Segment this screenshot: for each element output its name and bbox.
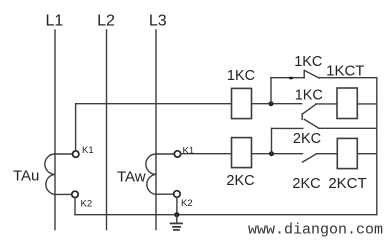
svg-text:2KC: 2KC [226, 173, 254, 189]
svg-text:K1: K1 [82, 145, 94, 156]
svg-text:2KC: 2KC [293, 131, 321, 147]
terminal K1 of TAw [174, 151, 180, 157]
junction node A [269, 101, 274, 106]
wire branch 2 left lead [272, 127, 303, 129]
wire 2KCT to right bus [357, 153, 377, 155]
junction node G at TAw K2 on bus [174, 212, 179, 217]
terminal K2 of TAu [72, 191, 78, 197]
wire TAw K2 down to bottom bus [176, 197, 178, 214]
junction node B [269, 151, 274, 156]
wire riser node B to branch 2 [271, 128, 273, 153]
wire L3 feeder [155, 30, 157, 230]
wire TAu K2 down to bottom bus [74, 198, 76, 215]
relay coil 1KC [232, 88, 252, 118]
contact 1KC upper (tick and blade) [304, 70, 319, 78]
wire contact 2KC lower to 2KCT [316, 153, 337, 155]
wire branch 1 right lead [319, 77, 377, 79]
svg-text:2KC: 2KC [292, 176, 320, 192]
svg-text:www.diangon.com: www.diangon.com [248, 222, 383, 239]
wire 2KC coil to node B [252, 153, 303, 155]
wire TAw secondary top stub [156, 153, 174, 155]
svg-text:1KC: 1KC [295, 88, 323, 104]
wire L2 feeder [106, 30, 108, 230]
svg-text:TAw: TAw [117, 169, 146, 186]
svg-text:L3: L3 [149, 13, 167, 30]
svg-text:K2: K2 [181, 198, 193, 209]
wire TAw secondary bottom stub [156, 193, 174, 195]
wire TAu secondary bottom stub [55, 193, 72, 195]
current transformer TAw primary winding [146, 154, 156, 195]
wire contact 1KC middle to 1KCT [316, 103, 337, 105]
contact 2KC lower (blade) [303, 154, 317, 162]
contact 1KC middle (blade and tick) [302, 104, 316, 119]
svg-text:TAu: TAu [13, 168, 39, 185]
ground [171, 215, 182, 230]
terminal K1 of TAu [73, 151, 79, 157]
svg-text:1KC: 1KC [294, 54, 322, 70]
wire branch 1 left lead [271, 77, 304, 79]
wire branch 2 right lead [319, 127, 377, 129]
svg-text:1KCT: 1KCT [326, 63, 364, 80]
contact 2KC upper (blade) [304, 119, 319, 128]
wire 1KCT to right bus [357, 103, 377, 105]
wire riser node A to branch 1 [270, 78, 272, 104]
svg-text:K2: K2 [81, 199, 93, 210]
wire 1KC coil to node A [252, 103, 302, 105]
svg-text:L1: L1 [46, 13, 64, 30]
wire L1 feeder [54, 30, 56, 230]
junction blob on branch 1 lead [289, 77, 294, 80]
svg-text:1KC: 1KC [227, 68, 255, 84]
time relay coil 2KCT [337, 138, 357, 168]
relay coil 2KC [232, 138, 252, 168]
svg-text:L2: L2 [97, 13, 115, 30]
wire TAu K1 up to rung 1 [76, 104, 232, 151]
terminal K2 of TAw [174, 191, 181, 198]
wire bottom common bus [75, 214, 377, 216]
wire right return bus [376, 78, 378, 215]
wire TAu secondary top stub [55, 153, 72, 155]
wire TAw K1 to 2KC coil [181, 153, 232, 155]
svg-text:K1: K1 [183, 146, 195, 157]
time relay coil 1KCT [337, 88, 357, 119]
svg-text:2KCT: 2KCT [328, 175, 366, 192]
current transformer TAu primary winding [45, 154, 55, 195]
